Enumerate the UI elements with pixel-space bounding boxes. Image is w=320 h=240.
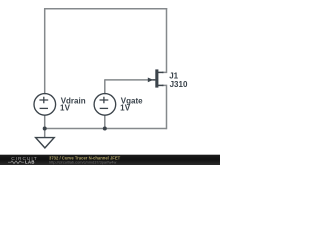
ground symbol [36,138,55,148]
wire: JFET source vertical down [162,85,167,129]
wire: left vertical (Vdrain top to top rail) [44,9,46,95]
transistor J1: source lead [158,84,164,86]
voltage source V1 Vdrain: body circle [34,94,56,116]
wire: bottom horizontal rail [44,128,167,130]
wire: Vgate bottom stub [104,115,106,129]
wire: Vdrain bottom stub [44,115,46,129]
transistor J1: drain lead [158,71,164,73]
voltage source V1: plus sign [39,97,48,104]
footer: black watermark bar [0,155,220,165]
svg-text:J1: J1 [169,72,178,81]
wire: right vertical to JFET drain [162,8,167,72]
voltage source V2 Vgate: body circle [94,94,116,116]
node: junction dot at Vgate bottom [103,127,107,131]
transistor J1: gate lead with arrow [153,79,156,81]
voltage source V2: minus sign [100,107,108,109]
node: junction dot at ground tap [43,127,47,131]
svg-text:J310: J310 [170,80,188,89]
svg-text:LAB: LAB [25,160,35,165]
transistor J1: channel bar [155,69,158,87]
wire: gate vertical drop to Vgate [104,79,106,94]
voltage source V2: plus sign [100,97,109,104]
footer: logo resistor zigzag [8,161,24,164]
svg-text:http://circuitlab.com/c/nmd37/: http://circuitlab.com/c/nmd37/3parfw4w [49,160,116,165]
wire: ground stub [44,129,46,139]
voltage source V1: minus sign [40,107,48,109]
wire: gate horizontal [105,79,155,81]
wire: top horizontal rail [44,8,167,10]
